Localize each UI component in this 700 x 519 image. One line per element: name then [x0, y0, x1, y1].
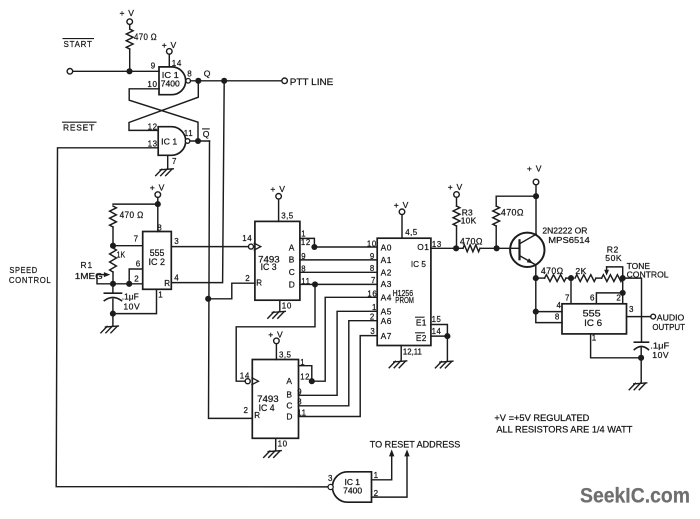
- transistor Q1 2N2222/MPS6514: [510, 233, 544, 267]
- svg-text:3,5: 3,5: [279, 351, 291, 360]
- svg-text:A3: A3: [381, 279, 392, 289]
- svg-text:9: 9: [297, 388, 302, 397]
- wire E2 node to ground: [446, 336, 448, 361]
- svg-text:8: 8: [555, 312, 560, 321]
- wire 1K bottom: [112, 272, 114, 284]
- power +V terminal (IC1 pin 14): [167, 49, 173, 55]
- svg-text:A2: A2: [381, 268, 392, 278]
- wire +V to IC5: [401, 215, 403, 239]
- resistor 470 ohm R4 (START pull-up): [126, 29, 133, 49]
- svg-text:E1: E1: [416, 317, 427, 327]
- svg-text:O1: O1: [417, 242, 429, 252]
- svg-text:11: 11: [301, 277, 310, 286]
- svg-text:14: 14: [240, 371, 250, 380]
- wire C2 to ground: [640, 348, 642, 383]
- junction R1/C1: [110, 281, 116, 287]
- IC2 555 box: [143, 232, 172, 290]
- svg-text:10: 10: [147, 80, 157, 89]
- svg-text:1: 1: [301, 229, 306, 238]
- junction base node: [494, 245, 500, 251]
- wire Qbar vertical to counters reset: [209, 141, 253, 418]
- power +V terminal (IC2): [155, 192, 161, 198]
- svg-text:A1: A1: [381, 255, 392, 265]
- IC1c output bubble pin 3: [328, 484, 333, 489]
- svg-text:+ V: + V: [448, 182, 463, 192]
- svg-text:7: 7: [172, 157, 177, 166]
- svg-text:PROM: PROM: [395, 295, 414, 305]
- svg-text:IC 2: IC 2: [149, 257, 166, 267]
- wire pot to pin 2 node: [622, 278, 624, 304]
- junction pin 4: [533, 309, 539, 315]
- wire START input to IC1a pin 9: [73, 70, 159, 72]
- svg-text:4: 4: [174, 273, 179, 282]
- wire O1 output pin 13: [431, 247, 463, 249]
- svg-text:12: 12: [148, 123, 158, 132]
- svg-text:SeekIC.com: SeekIC.com: [580, 484, 690, 508]
- ground (C2): [634, 383, 647, 384]
- svg-text:10V: 10V: [652, 350, 669, 360]
- wire R8 top to +V rail: [496, 196, 536, 206]
- wire IC3 B to PROM A1: [300, 259, 377, 261]
- wire cross-couple IC1a pin 10 to Qbar: [129, 89, 198, 141]
- junction Q a: [195, 78, 201, 84]
- svg-text:3,5: 3,5: [281, 211, 293, 220]
- ground (IC2/C1): [105, 326, 118, 327]
- svg-text:B: B: [286, 390, 292, 400]
- wire IC1b pin 13 to reset gate output: [56, 148, 328, 487]
- svg-text:.1μF: .1μF: [650, 340, 669, 350]
- svg-text:7: 7: [134, 235, 139, 244]
- svg-text:14: 14: [242, 234, 252, 243]
- wire IC3 C to PROM A2: [300, 271, 377, 273]
- resistor 470 ohm R7 (base series): [463, 245, 480, 252]
- svg-text:13: 13: [432, 240, 442, 249]
- pin 7 stem IC1b: [167, 155, 169, 168]
- junction START/470: [126, 68, 132, 74]
- junction pin2/pin6: [126, 281, 132, 287]
- svg-text:D: D: [289, 279, 296, 289]
- IC5 ground stem: [400, 346, 402, 361]
- wire IC6 pin 4: [536, 278, 562, 323]
- svg-text:1K: 1K: [117, 250, 126, 260]
- wire pin 7: [113, 245, 143, 247]
- svg-text:7: 7: [371, 276, 376, 285]
- wire IC4 A to PROM A4: [312, 297, 377, 381]
- junction pot right: [620, 275, 626, 281]
- svg-text:3: 3: [328, 474, 333, 483]
- op-amp gate IC1a 7400 NAND: [159, 67, 186, 95]
- svg-text:R: R: [256, 279, 262, 288]
- junction pin7/1K: [110, 243, 116, 249]
- svg-text:+ V: + V: [120, 8, 135, 18]
- wire pin 6 loop: [129, 269, 143, 284]
- svg-text:OUTPUT: OUTPUT: [652, 322, 685, 332]
- wire Q output to PTT LINE: [191, 80, 282, 82]
- svg-text:E2: E2: [416, 333, 427, 343]
- wire pin 6 loop IC6: [596, 293, 622, 304]
- wire R7 to base node: [480, 247, 497, 249]
- svg-text:+V =+5V REGULATED: +V =+5V REGULATED: [494, 413, 589, 423]
- IC6 555 box: [562, 304, 627, 334]
- wire tap to IC3 R pin 2: [208, 283, 255, 299]
- junction Qbar/IC3 R tap: [205, 296, 211, 302]
- power +V terminal (R3): [454, 192, 460, 198]
- junction +V/470: [155, 201, 161, 207]
- wire +V to IC2 pin 8: [157, 197, 159, 231]
- wire +V to collector: [535, 185, 537, 196]
- wire cross-couple Q to IC1b pin 12: [129, 81, 198, 131]
- svg-text:2: 2: [616, 294, 621, 303]
- ground (E1/E2): [440, 361, 453, 362]
- ground (IC5 pins 12,11): [394, 361, 407, 362]
- resistor 470 ohm R8 (base pull-up): [493, 206, 500, 226]
- junction R9/2K/pin7: [568, 275, 574, 281]
- svg-text:470 Ω: 470 Ω: [120, 210, 144, 220]
- svg-text:12: 12: [301, 238, 311, 247]
- svg-text:B: B: [289, 255, 295, 265]
- svg-text:A: A: [286, 376, 292, 386]
- wire IC2 pin 1 to ground node: [113, 289, 157, 313]
- junction C2/pin1: [638, 355, 644, 361]
- svg-text:A7: A7: [381, 331, 392, 341]
- op-amp gate IC1b 7400 NAND: [158, 127, 186, 156]
- wire pin 2: [113, 283, 143, 285]
- wire R8 bottom to base node: [495, 226, 497, 248]
- svg-text:8: 8: [187, 70, 192, 79]
- svg-text:IC 3: IC 3: [261, 262, 277, 272]
- svg-text:50K: 50K: [605, 253, 622, 263]
- svg-text:470Ω: 470Ω: [460, 237, 483, 247]
- svg-text:3: 3: [629, 305, 634, 314]
- svg-text:MPS6514: MPS6514: [548, 235, 590, 245]
- junction Qbar: [195, 138, 201, 144]
- wire pot node to C2: [623, 278, 642, 342]
- wire +V to IC3: [278, 199, 280, 221]
- junction C1/pin1: [110, 311, 116, 317]
- svg-text:12: 12: [300, 373, 310, 382]
- capacitor C1 curved plate: [104, 297, 121, 300]
- svg-text:10K: 10K: [461, 215, 477, 225]
- svg-text:R: R: [254, 411, 260, 420]
- power +V terminal (collector): [533, 179, 539, 185]
- svg-text:1: 1: [592, 334, 597, 343]
- svg-text:C: C: [286, 400, 293, 410]
- resistor 470 ohm R5 (IC2): [110, 206, 117, 227]
- svg-text:4,5: 4,5: [405, 228, 417, 237]
- svg-text:A0: A0: [381, 243, 392, 253]
- IC1a output bubble pin 8: [186, 79, 191, 84]
- wire R9 to node: [566, 277, 571, 279]
- IC4 clock input pin 14: [245, 379, 250, 384]
- svg-text:CONTROL: CONTROL: [9, 275, 52, 285]
- wire IC1c pin 2 to reset address: [372, 455, 408, 497]
- wire IC4 D to PROM A7: [299, 336, 378, 417]
- junction IC3 A: [311, 244, 317, 250]
- svg-text:9: 9: [301, 252, 306, 261]
- resistor R3 10K: [453, 206, 460, 226]
- wire +V to IC4: [275, 344, 277, 360]
- wire C1 to ground: [112, 299, 114, 326]
- svg-text:7400: 7400: [161, 80, 181, 89]
- wire IC1c pin 1 to reset address: [372, 455, 392, 480]
- svg-text:RESET: RESET: [63, 123, 95, 133]
- wire IC3 A to PROM A0: [314, 246, 377, 248]
- wire IC6 pin 7: [570, 278, 572, 304]
- power +V terminal (IC3): [276, 194, 282, 200]
- IC3 7493 box: [255, 221, 300, 300]
- wire Qbar output: [190, 140, 210, 142]
- op-amp gate IC1c 7400 NAND (mirrored): [332, 472, 371, 502]
- svg-text:8: 8: [370, 264, 375, 273]
- ground (IC1b pin 7): [160, 169, 173, 170]
- svg-text:START: START: [64, 39, 93, 49]
- svg-text:2K: 2K: [575, 266, 587, 276]
- svg-text:R: R: [164, 279, 170, 288]
- svg-text:C: C: [289, 267, 296, 277]
- svg-text:9: 9: [370, 252, 375, 261]
- svg-text:+ V: + V: [268, 329, 283, 339]
- node START input terminal: [67, 69, 73, 75]
- junction +V/R8: [533, 193, 539, 199]
- svg-text:TO RESET ADDRESS: TO RESET ADDRESS: [370, 439, 461, 449]
- wire pin 14: [168, 54, 170, 67]
- svg-text:13: 13: [148, 139, 158, 148]
- svg-text:IC 6: IC 6: [584, 318, 602, 328]
- wire R3 to O1 node: [456, 226, 458, 248]
- svg-text:1MEG: 1MEG: [75, 271, 103, 281]
- svg-text:10V: 10V: [123, 301, 140, 311]
- IC4 pin 10 stem: [275, 438, 277, 450]
- power +V terminal (IC4): [274, 338, 280, 344]
- svg-text:12,11: 12,11: [403, 348, 423, 357]
- wire emitter to R9: [536, 277, 545, 279]
- resistor 1K R6: [110, 248, 117, 272]
- wire IC3 D to PROM A3: [300, 283, 377, 285]
- ground (IC4 pin 10): [268, 451, 281, 452]
- wire IC6 pin 3 audio out: [627, 316, 651, 318]
- svg-text:+ V: + V: [270, 184, 285, 194]
- junction IC4 A: [309, 378, 315, 384]
- svg-text:14: 14: [432, 327, 442, 336]
- wire +V node to R5: [113, 203, 158, 205]
- node AUDIO OUTPUT terminal: [651, 314, 656, 319]
- svg-text:2: 2: [370, 313, 375, 322]
- svg-text:6: 6: [136, 260, 141, 269]
- svg-text:+ V: + V: [162, 40, 177, 50]
- potentiometer R2 50K: [602, 275, 623, 282]
- capacitor C2 .1uF plates: [634, 341, 648, 343]
- wire 2K to R2: [596, 277, 602, 279]
- svg-text:ALL RESISTORS ARE 1/4 WATT: ALL RESISTORS ARE 1/4 WATT: [496, 424, 633, 434]
- ground (IC3 pin 10): [272, 311, 285, 312]
- svg-text:PTT LINE: PTT LINE: [290, 77, 334, 87]
- svg-text:10: 10: [282, 301, 292, 310]
- svg-text:470Ω: 470Ω: [501, 208, 524, 218]
- svg-text:A5: A5: [381, 307, 392, 317]
- svg-text:SPEED: SPEED: [9, 265, 37, 275]
- svg-text:IC 1: IC 1: [161, 138, 177, 147]
- svg-text:7: 7: [565, 294, 570, 303]
- svg-text:D: D: [286, 411, 293, 421]
- svg-text:Q: Q: [203, 129, 210, 139]
- IC3 clock input pin 14: [249, 244, 254, 249]
- resistor 2K R10: [575, 275, 596, 282]
- IC1b output bubble pin 11: [185, 139, 190, 144]
- svg-text:2: 2: [374, 489, 379, 498]
- svg-text:A4: A4: [381, 293, 392, 303]
- svg-text:3: 3: [174, 237, 179, 246]
- potentiometer R1 1MEG wiper: [97, 274, 105, 276]
- wire pin 4 stub: [536, 311, 562, 313]
- junction emitter: [533, 275, 539, 281]
- wire Q to IC2 pin 4 (reset): [171, 81, 224, 283]
- svg-text:Q: Q: [204, 68, 211, 78]
- svg-text:1: 1: [372, 303, 377, 312]
- wire E2 pin 14: [431, 335, 448, 337]
- svg-text:1: 1: [300, 358, 305, 367]
- svg-text:10: 10: [278, 440, 288, 449]
- svg-text:R1: R1: [81, 260, 94, 270]
- svg-text:1: 1: [158, 291, 163, 300]
- IC4 7493 box: [252, 360, 298, 439]
- svg-text:+ V: + V: [150, 182, 165, 192]
- wire IC4 C to PROM A6: [299, 321, 378, 406]
- resistor 470 ohm R9 (emitter): [545, 275, 566, 282]
- svg-text:555: 555: [583, 309, 601, 319]
- node PTT LINE terminal: [282, 78, 288, 84]
- wire emitter down: [535, 265, 537, 278]
- svg-text:IC 4: IC 4: [259, 403, 275, 413]
- IC3 output A jumper pins 1-12: [300, 238, 315, 247]
- wire IC2 pin 3 to IC3 clock: [171, 246, 248, 248]
- svg-text:7400: 7400: [343, 486, 363, 495]
- svg-text:8: 8: [301, 265, 306, 274]
- svg-text:8: 8: [297, 397, 302, 406]
- svg-text:1: 1: [374, 471, 379, 480]
- svg-text:9: 9: [151, 62, 156, 71]
- svg-text:15: 15: [432, 315, 442, 324]
- svg-text:2: 2: [134, 274, 139, 283]
- svg-text:A6: A6: [381, 316, 392, 326]
- svg-text:3: 3: [370, 327, 375, 336]
- svg-text:2: 2: [244, 406, 249, 415]
- wire E1 pin 15: [431, 325, 448, 337]
- svg-text:4: 4: [557, 301, 562, 310]
- svg-text:2: 2: [245, 274, 250, 283]
- power +V terminal (START pull-up): [127, 19, 133, 25]
- IC3 pin 10 stem: [279, 300, 281, 311]
- wire IC6 pin 1 to ground node: [591, 334, 641, 358]
- svg-text:11: 11: [297, 409, 306, 418]
- svg-text:10: 10: [367, 239, 377, 248]
- svg-text:IC 5: IC 5: [411, 259, 426, 269]
- wire R4 bottom to START node: [129, 49, 131, 71]
- junction pin2/pin6 node: [620, 290, 626, 296]
- junction Q b: [221, 78, 227, 84]
- svg-text:470 Ω: 470 Ω: [134, 32, 157, 42]
- svg-text:6: 6: [590, 294, 595, 303]
- svg-text:+ V: + V: [394, 200, 409, 210]
- junction IC3 D: [312, 281, 318, 287]
- svg-text:A: A: [289, 242, 295, 252]
- capacitor C1 .1uF top plate: [112, 284, 114, 293]
- wire collector riser: [535, 196, 537, 235]
- power +V terminal (IC5): [399, 209, 405, 215]
- IC5 H1256 PROM box: [377, 238, 431, 345]
- wire +V to R4 top: [129, 25, 131, 30]
- junction E1/E2: [444, 333, 450, 339]
- svg-text:16: 16: [367, 289, 377, 298]
- svg-text:11: 11: [184, 129, 194, 138]
- svg-text:+ V: + V: [527, 163, 542, 173]
- IC4 output A jumper pins 1-12: [299, 366, 312, 382]
- wire IC4 B to PROM A5: [299, 311, 378, 395]
- svg-text:470Ω: 470Ω: [541, 266, 564, 276]
- wire R5 to pin7 node: [112, 227, 114, 246]
- wire +V to R3: [456, 197, 458, 206]
- wire IC3 D to IC4 clock: [236, 284, 315, 381]
- junction R3/O1: [453, 245, 459, 251]
- svg-text:.1μF: .1μF: [122, 291, 139, 301]
